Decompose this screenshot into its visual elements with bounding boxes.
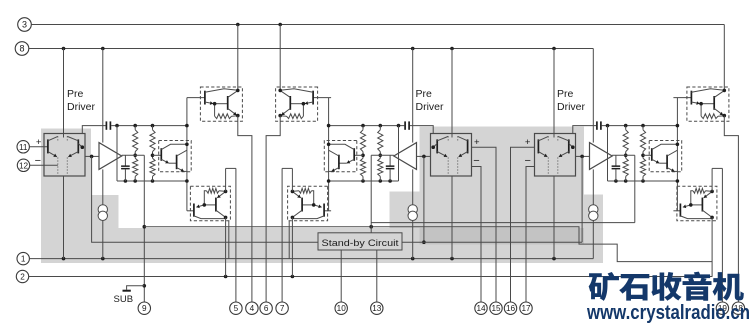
- transistor Q1 input-right: [67, 136, 82, 157]
- junction dots top rail ch3: [606, 124, 645, 128]
- transistor ch1 driver-2: [169, 150, 187, 171]
- wire op-amp output ch3: [612, 154, 635, 156]
- pin 8: [15, 42, 29, 56]
- wire pair to op-amp Q2: [417, 155, 431, 157]
- resistor ch3-Ra: [623, 126, 628, 156]
- svg-text:Stand-by Circuit: Stand-by Circuit: [322, 238, 399, 249]
- junction dots upper pair ch1: [213, 89, 240, 118]
- wire pair to op-amp Q1: [85, 155, 99, 157]
- transistor Q2 input-left: [458, 136, 469, 156]
- label polarity ch3: [524, 137, 530, 167]
- wire base stub lower ch2: [324, 210, 331, 212]
- resistor ch1-Re: [215, 104, 238, 119]
- wire left branch ch1: [116, 126, 118, 181]
- wire ch1 lower emitter to ground: [225, 217, 227, 276]
- wire ch2 bias drop: [288, 221, 290, 259]
- transistor ch3 lower-1: [680, 204, 713, 219]
- input pair box Q2: [431, 134, 472, 177]
- junction dot pair output Q1: [81, 145, 85, 149]
- transistor ch2 driver-1: [329, 144, 355, 163]
- junction dots divider ch1: [133, 154, 154, 158]
- svg-text:−: −: [35, 155, 41, 167]
- capacitor ch1-Ca: [106, 121, 112, 129]
- wire divider to driver base ch2: [354, 154, 363, 156]
- dotted bias paths Q1: [58, 136, 68, 174]
- transistor Q1 input-left: [47, 136, 58, 156]
- junction dots on pin-2 rail: [224, 275, 294, 279]
- pin 7: [276, 302, 288, 314]
- svg-text:+: +: [36, 137, 42, 148]
- wire output A ch1: [238, 116, 252, 303]
- resistor ch2-Rc: [360, 126, 365, 156]
- shaded region channel-1 bias column: [41, 129, 91, 264]
- svg-text:11: 11: [19, 143, 28, 152]
- pin 15: [490, 302, 502, 314]
- resistor ch1-Rf: [204, 188, 225, 205]
- junction dot pair output Q2: [431, 145, 435, 149]
- resistor ch2-Ra: [378, 126, 383, 156]
- lower output box dashed ch3: [677, 186, 717, 221]
- junction dots lower pair ch3: [689, 190, 714, 220]
- svg-text:3: 3: [22, 20, 27, 30]
- resistor ch1-Rc: [150, 126, 155, 156]
- capacitor ch3-Cb: [612, 155, 621, 181]
- wire output A ch3: [724, 116, 738, 303]
- svg-text:15: 15: [491, 304, 501, 313]
- driver box dashed ch2: [324, 141, 357, 172]
- shaded region channel-1 current-source column: [91, 195, 119, 263]
- junction dots bottom rail ch1: [124, 179, 155, 183]
- wire ch3 feedback drop: [581, 156, 583, 242]
- svg-text:+: +: [525, 137, 531, 148]
- svg-text:Driver: Driver: [67, 101, 96, 113]
- svg-text:Driver: Driver: [416, 101, 445, 113]
- capacitor ch2-Ca: [404, 121, 410, 129]
- wire ch1 output node to SUB column: [143, 155, 145, 302]
- svg-text:Pre: Pre: [557, 88, 574, 100]
- wire op-amp to current source ch3: [592, 169, 594, 204]
- transistor ch1 driver-1: [160, 144, 186, 163]
- transistor ch3 driver-1: [651, 144, 677, 163]
- dotted bias paths Q3: [548, 136, 558, 174]
- driver box dashed ch3: [649, 141, 682, 172]
- resistor ch1-Rb: [133, 155, 138, 181]
- pin 9: [138, 302, 150, 314]
- wire bootstrap ch2: [282, 168, 292, 191]
- shaded region channel-2/3 input block: [420, 127, 585, 245]
- wire ch3 (+) input to pin 16: [511, 147, 535, 302]
- svg-text:Pre: Pre: [416, 88, 433, 100]
- resistor ch1-Rd: [150, 155, 155, 181]
- pin 18: [732, 302, 744, 314]
- wire comp right rail ch2: [328, 98, 330, 211]
- svg-text:9: 9: [142, 304, 147, 313]
- svg-text:−: −: [524, 155, 530, 167]
- wire base stub lower ch1: [187, 210, 194, 212]
- wire ch1 feedback drop: [92, 156, 318, 242]
- op-amp ch1: [99, 143, 122, 170]
- junction dots lower pair ch2: [291, 190, 316, 220]
- wire ch2 (+) input to pin 15: [472, 147, 497, 302]
- op-amp ch3: [590, 143, 613, 170]
- svg-text:16: 16: [506, 304, 516, 313]
- pin 1: [17, 252, 29, 264]
- wire ch3 (-) input to pin 17: [526, 167, 535, 303]
- op-amp ch2: [394, 143, 417, 170]
- wire op-amp output ch1: [122, 154, 145, 156]
- shaded region overlap (darker): [420, 228, 585, 245]
- upper output box dashed ch1: [200, 87, 242, 121]
- junction dots lower pair ch1: [203, 190, 228, 220]
- wire op-amp supply drop ch2: [412, 49, 414, 143]
- junction dot feedback node Q1: [90, 155, 94, 159]
- label Pre Driver ch3: [557, 88, 586, 113]
- dotted bias paths Q2: [448, 136, 458, 174]
- svg-text:+: +: [474, 137, 480, 148]
- wire divider to driver base ch1: [153, 154, 162, 156]
- wire bootstrap ch1: [226, 168, 236, 191]
- capacitor ch3-Ca: [596, 121, 602, 129]
- transistor Q2 input-right: [433, 136, 448, 157]
- wire driver to upper base ch3: [673, 97, 691, 99]
- junction dots top rail ch2: [361, 124, 400, 128]
- wire current source to ground ch1: [102, 221, 104, 259]
- resistor ch3-Rc: [640, 126, 645, 156]
- transistor Q3 input-left: [538, 136, 549, 156]
- pin 4: [246, 302, 258, 314]
- svg-text:Pre: Pre: [67, 88, 84, 100]
- wire divider to driver base ch3: [643, 154, 652, 156]
- resistor ch2-Rb: [378, 155, 383, 181]
- junction dots upper pair ch3: [699, 89, 726, 118]
- wire comp right rail ch1: [186, 98, 188, 211]
- junction dot feedback net: [422, 240, 426, 244]
- transistor ch3 lower-2: [691, 192, 712, 218]
- pin 17: [520, 302, 532, 314]
- wire ground rail from pin 1: [29, 258, 593, 260]
- wire comp top rail ch3: [573, 126, 678, 134]
- wire op-amp to current source ch1: [102, 169, 104, 204]
- junction dots upper pair ch2: [278, 89, 305, 118]
- transistor ch3 upper-1: [691, 89, 725, 105]
- wire bias net A (to stand-by): [144, 227, 712, 262]
- wire ground rail from pin 2: [29, 276, 713, 278]
- transistor ch2 lower-1: [292, 204, 325, 219]
- junction dots right rail ch3: [676, 124, 680, 183]
- transistor ch1 lower-2: [204, 192, 225, 218]
- pin 11: [17, 141, 29, 153]
- junction dots bottom rail ch2: [361, 179, 392, 183]
- wire op-amp output ch2: [371, 154, 394, 156]
- wire op-amp supply drop ch3: [592, 49, 594, 143]
- stand-by circuit box: [318, 233, 402, 250]
- transistor ch1 lower-1: [193, 204, 226, 219]
- wire stand-by to pin 13: [376, 250, 378, 302]
- watermark url: [586, 302, 750, 324]
- shaded region channel-2 side column: [390, 192, 420, 264]
- label polarity ch1: [35, 137, 42, 167]
- wire comp bottom rail ch3: [608, 180, 678, 182]
- pin 2: [16, 270, 28, 282]
- junction dots divider ch2: [361, 154, 382, 158]
- junction dots right rail ch1: [185, 124, 189, 183]
- upper output box dashed ch2: [276, 87, 318, 121]
- wire pin 12 (-) input: [30, 164, 58, 166]
- wire pair to op-amp Q3: [576, 155, 590, 157]
- wire stand-by right net: [402, 241, 582, 243]
- SUB terminal bar: [123, 290, 131, 292]
- pin 12: [17, 159, 29, 171]
- svg-text:8: 8: [19, 44, 24, 54]
- svg-text:13: 13: [372, 304, 382, 313]
- svg-text:14: 14: [476, 304, 486, 313]
- wire ch1 bias drop: [228, 221, 230, 259]
- wire pair tail rail Q2: [451, 49, 453, 259]
- wire output B ch2: [281, 168, 283, 302]
- lower output box dashed ch2: [288, 186, 328, 221]
- wire op-amp supply drop ch1: [102, 49, 104, 143]
- resistor ch2-Re: [280, 104, 303, 119]
- junction dots on pin-3 rail: [236, 23, 282, 27]
- wire comp bottom rail ch2: [329, 180, 399, 182]
- svg-text:www.crystalradio.cn: www.crystalradio.cn: [586, 302, 750, 324]
- svg-text:5: 5: [234, 304, 239, 313]
- svg-text:SUB: SUB: [114, 294, 134, 305]
- wire output A ch2: [266, 116, 280, 303]
- svg-text:12: 12: [19, 161, 29, 170]
- wire base stub lower ch3: [673, 210, 680, 212]
- wire comp right rail ch3: [676, 98, 678, 211]
- wire ch2 output node to stand-by: [370, 155, 372, 233]
- wire comp bottom rail ch1: [117, 180, 187, 182]
- svg-text:17: 17: [521, 304, 531, 313]
- driver box dashed ch1: [159, 141, 192, 172]
- transistor ch2 upper-1: [280, 89, 314, 105]
- pin 13: [371, 302, 383, 314]
- shaded region bottom bias band: [41, 228, 603, 263]
- junction dot feedback node Q2: [422, 155, 426, 159]
- wire current source to ground ch2: [412, 221, 414, 259]
- svg-text:1: 1: [21, 255, 26, 264]
- current source ch3: [589, 205, 598, 221]
- pin 19: [716, 302, 728, 314]
- svg-text:2: 2: [20, 272, 25, 281]
- wire output B ch3: [721, 168, 723, 302]
- pin 16: [504, 302, 516, 314]
- label SUB: [114, 294, 134, 305]
- wire comp top rail ch1: [82, 126, 187, 134]
- transistor Q3 input-right: [558, 136, 573, 157]
- wire ch2 lower emitter to ground: [291, 217, 293, 276]
- wire VCC drop ch3: [723, 25, 725, 91]
- wire left branch ch3: [607, 126, 609, 181]
- shaded region channel-3 current-source column: [584, 195, 603, 264]
- pin 3: [18, 18, 32, 32]
- pin 5: [230, 302, 242, 314]
- svg-text:7: 7: [280, 304, 285, 313]
- wire driver to upper base ch1: [187, 97, 205, 99]
- junction dots on pin-1 rail: [62, 257, 556, 261]
- resistor ch3-Rf: [691, 188, 712, 205]
- lower output box dashed ch1: [190, 186, 230, 221]
- wire current source to ground ch3: [592, 221, 594, 259]
- junction dots divider ch3: [624, 154, 645, 158]
- junction dots on pin-8 rail: [62, 47, 556, 51]
- resistor ch2-Rf: [292, 188, 313, 205]
- current source ch2: [408, 205, 417, 221]
- transistor ch2 lower-2: [292, 192, 313, 218]
- transistor ch3 driver-2: [659, 150, 677, 171]
- svg-text:6: 6: [264, 304, 269, 313]
- label polarity ch2: [473, 137, 480, 167]
- resistor ch3-Rb: [623, 155, 628, 181]
- resistor ch3-Re: [701, 104, 724, 119]
- svg-text:4: 4: [250, 304, 255, 313]
- input pair box Q1: [44, 134, 85, 177]
- wire pair tail rail Q1: [63, 49, 65, 259]
- input pair box Q3: [535, 134, 576, 177]
- transistor ch2 driver-2: [329, 150, 347, 171]
- pin 6: [260, 302, 272, 314]
- wire SUB branch: [127, 286, 145, 290]
- wire bootstrap ch3: [712, 168, 722, 191]
- upper output box dashed ch3: [687, 87, 729, 121]
- wire Vref rail from pin 8: [29, 48, 593, 50]
- wire pair tail rail Q3: [553, 49, 555, 259]
- svg-text:10: 10: [337, 304, 347, 313]
- wire output B ch1: [235, 168, 237, 302]
- transistor ch1 upper-2: [215, 91, 238, 116]
- wire ch3 output node drop: [634, 155, 636, 222]
- junction dots top rail ch1: [115, 124, 154, 128]
- transistor ch2 upper-2: [280, 91, 303, 116]
- pin 10: [335, 302, 347, 314]
- junction dot bias net A: [369, 225, 373, 229]
- watermark logo text: [589, 272, 744, 301]
- wire VCC drop ch2: [279, 25, 281, 91]
- transistor ch3 upper-2: [701, 91, 724, 116]
- resistor ch3-Rd: [640, 155, 645, 181]
- resistor ch2-Rd: [360, 155, 365, 181]
- junction dot pair output Q3: [571, 145, 575, 149]
- transistor ch1 upper-1: [204, 89, 238, 105]
- current source ch1: [98, 205, 107, 221]
- wire driver to upper base ch2: [313, 97, 331, 99]
- wire ch3 lower emitter to ground: [711, 217, 713, 276]
- label Pre Driver ch1: [67, 88, 96, 113]
- label Pre Driver ch2: [416, 88, 445, 113]
- wire VCC drop ch1: [237, 25, 239, 91]
- junction dots right rail ch2: [327, 124, 331, 183]
- junction dots SUB column: [143, 225, 147, 288]
- pin 14: [475, 302, 487, 314]
- wire op-amp to current source ch2: [412, 169, 414, 204]
- junction dot feedback node Q3: [580, 155, 584, 159]
- wire VCC rail from pin 3: [31, 24, 724, 26]
- wire ch2 (-) input to pin 14: [472, 167, 482, 303]
- capacitor ch2-Cb: [386, 155, 395, 181]
- resistor ch1-Ra: [133, 126, 138, 156]
- wire ch2 feedback drop: [423, 156, 425, 242]
- svg-text:Driver: Driver: [557, 101, 586, 113]
- wire bias net B: [371, 222, 635, 224]
- wire pin 11 (+) input: [29, 146, 48, 148]
- wire comp top rail ch2: [329, 126, 434, 134]
- wire left branch ch2: [398, 126, 400, 181]
- capacitor ch1-Cb: [121, 155, 130, 181]
- junction dots bottom rail ch3: [614, 179, 645, 183]
- svg-text:−: −: [473, 155, 479, 167]
- wire stand-by to pin 10: [340, 250, 342, 302]
